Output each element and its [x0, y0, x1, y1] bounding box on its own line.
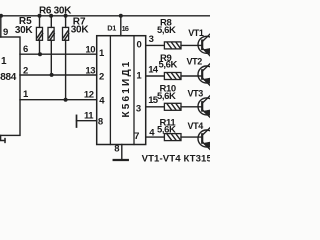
wire D1 pin14 to R9	[146, 75, 165, 77]
svg-text:30K: 30K	[15, 25, 34, 36]
wire pin 8 to ground	[121, 145, 123, 160]
svg-text:6: 6	[23, 44, 28, 55]
svg-text:8884: 8884	[0, 72, 17, 83]
wire D1 pin3 to R8	[146, 44, 165, 46]
svg-text:12: 12	[84, 89, 94, 100]
wire D1 pin4 to R11	[146, 136, 165, 138]
node junction rail/R7	[64, 14, 68, 18]
svg-text:1: 1	[136, 70, 142, 81]
resistor R5	[39, 16, 41, 54]
node junction rail/R5	[38, 14, 42, 18]
wire pin 11 stub to common	[77, 120, 97, 122]
resistor R8	[164, 42, 181, 49]
svg-text:13: 13	[85, 66, 95, 77]
svg-text:5,6K: 5,6K	[157, 124, 176, 135]
svg-text:1: 1	[23, 89, 29, 100]
svg-text:VT1-VT4 КТ315: VT1-VT4 КТ315	[142, 153, 210, 164]
wire pin 6 left IC to pin 10 D1	[20, 53, 97, 55]
wire D1 pin15 to R10	[146, 106, 165, 108]
node junction R5 on pin6 wire	[38, 52, 42, 56]
svg-text:5,6K: 5,6K	[157, 91, 176, 102]
wire R8 to VT1 base	[181, 44, 202, 46]
transistor VT1	[198, 34, 215, 57]
IC D1 K561ID1 outline	[97, 36, 146, 145]
ground bar	[114, 159, 128, 161]
svg-text:5,6K: 5,6K	[157, 25, 176, 36]
wire R11 to VT4 base	[181, 136, 202, 138]
svg-text:1: 1	[99, 48, 105, 59]
resistor R6	[50, 16, 52, 75]
svg-text:3: 3	[136, 103, 141, 114]
transistor VT3	[198, 95, 215, 118]
wire top supply rail	[1, 15, 210, 17]
svg-text:2: 2	[23, 66, 28, 77]
svg-text:2: 2	[99, 71, 104, 82]
wire left IC bottom common stub	[1, 135, 5, 140]
svg-text:VT4: VT4	[188, 121, 204, 131]
svg-text:R6 30K: R6 30K	[39, 5, 72, 16]
wire pin 16 to rail	[120, 16, 122, 36]
resistor R7	[65, 16, 67, 100]
svg-text:0: 0	[137, 40, 142, 51]
svg-text:16: 16	[122, 24, 129, 33]
svg-text:14: 14	[148, 65, 159, 76]
resistor R9	[164, 73, 181, 80]
svg-text:4: 4	[149, 127, 155, 138]
node junction R7 on pin1 wire	[64, 98, 68, 102]
svg-text:30K: 30K	[71, 25, 90, 36]
transistor VT2	[198, 63, 215, 86]
svg-text:11: 11	[84, 111, 94, 122]
svg-text:5,6K: 5,6K	[159, 60, 178, 71]
wire R9 to VT2 base	[181, 75, 202, 77]
svg-text:VT2: VT2	[187, 57, 203, 67]
transistor VT4	[198, 127, 215, 150]
svg-text:4: 4	[99, 96, 105, 107]
wire pin 9 of left IC to rail	[0, 16, 2, 37]
svg-text:9: 9	[3, 27, 8, 38]
resistor R10	[164, 103, 181, 110]
svg-text:1: 1	[1, 56, 7, 67]
svg-text:10: 10	[85, 44, 95, 55]
svg-text:VT3: VT3	[188, 89, 204, 99]
node junction rail/R6	[49, 14, 53, 18]
node junction rail/pin16	[119, 14, 123, 18]
svg-text:8: 8	[114, 144, 119, 155]
wire R10 to VT3 base	[181, 106, 202, 108]
node junction R6 on pin2 wire	[50, 73, 54, 77]
resistor R11	[164, 134, 181, 141]
wire pin 1 left IC to pin 12 D1	[20, 99, 97, 101]
common tick bottom stub	[4, 139, 6, 143]
svg-text:7: 7	[134, 131, 139, 142]
common tick pin 11	[76, 115, 78, 127]
svg-text:D1: D1	[107, 23, 116, 32]
svg-text:К561ИД1: К561ИД1	[121, 59, 132, 117]
svg-text:3: 3	[149, 34, 154, 45]
svg-text:VT1: VT1	[188, 28, 204, 38]
node junction rail / pin 9	[0, 14, 3, 18]
svg-text:8: 8	[98, 116, 103, 127]
left IC (cut off at image edge)	[0, 37, 20, 135]
wire pin 2 left IC to pin 13 D1	[20, 74, 97, 76]
